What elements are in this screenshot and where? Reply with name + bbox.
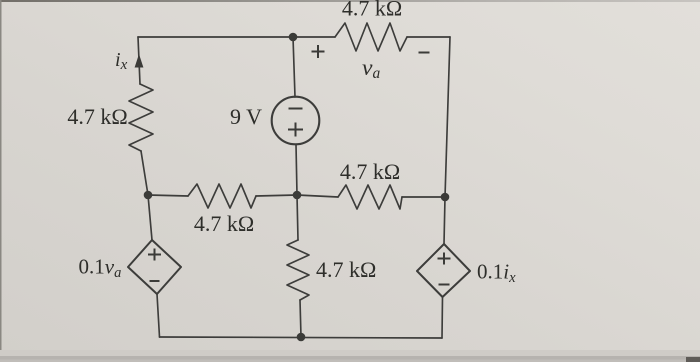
wire right column top	[445, 37, 450, 197]
current arrow ix head	[135, 54, 144, 68]
wire center resistor to bottom node	[300, 300, 301, 337]
wire left diamond to bottom-left corner	[157, 294, 160, 337]
dependent source 0.1ix diamond	[417, 244, 470, 297]
node dot middle left	[144, 191, 153, 200]
svg-text:4.7 kΩ: 4.7 kΩ	[67, 104, 127, 129]
wire 9V source to center node	[296, 145, 297, 196]
plus sign inside left diamond	[148, 249, 161, 261]
svg-text:4.7 kΩ: 4.7 kΩ	[342, 0, 402, 21]
wire bottom row	[160, 337, 443, 338]
minus sign inside left diamond	[150, 280, 160, 282]
svg-text:9 V: 9 V	[230, 104, 262, 129]
wire right node to right diamond	[444, 197, 445, 244]
wire mid-right resistor to right node	[402, 196, 445, 198]
minus sign inside right diamond	[439, 284, 450, 286]
wire top-left to top resistor	[138, 36, 335, 38]
node dot middle center	[293, 191, 302, 200]
wire mid-left resistor to center node	[256, 195, 297, 196]
dependent source 0.1va diamond	[128, 240, 181, 294]
voltage source V 9V circle	[272, 97, 320, 145]
node dot top center	[289, 33, 298, 42]
svg-text:4.7 kΩ: 4.7 kΩ	[194, 211, 254, 236]
wire left resistor to left node	[141, 151, 148, 195]
wire left node to mid-left resistor	[148, 195, 188, 196]
resistor R top 4.7k	[335, 23, 407, 51]
wire center node down to center resistor	[297, 195, 298, 240]
minus sign top (va polarity)	[419, 52, 430, 54]
wire left column top with current path	[138, 37, 140, 84]
resistor R mid-right 4.7k	[338, 185, 402, 209]
wire left node to left diamond	[148, 195, 152, 240]
resistor R center 4.7k	[287, 240, 309, 300]
minus sign inside 9V source	[289, 108, 303, 110]
svg-text:4.7 kΩ: 4.7 kΩ	[340, 159, 400, 184]
wire top resistor to top-right corner	[407, 36, 450, 38]
plus/minus marks drawn as lines	[148, 45, 451, 285]
plus sign inside right diamond	[438, 253, 451, 265]
wire center node to mid-right resistor	[297, 195, 338, 197]
plus sign top (va polarity)	[312, 45, 325, 58]
wire top node to 9V source	[293, 37, 295, 97]
plus sign inside 9V source	[288, 123, 303, 137]
wire right diamond to bottom-right corner	[441, 297, 444, 338]
svg-text:4.7 kΩ: 4.7 kΩ	[316, 257, 376, 282]
node dot middle right	[441, 193, 450, 202]
resistor R left 4.7k	[129, 84, 153, 151]
resistor R mid-left 4.7k	[188, 184, 256, 208]
node dot bottom center	[297, 333, 306, 342]
